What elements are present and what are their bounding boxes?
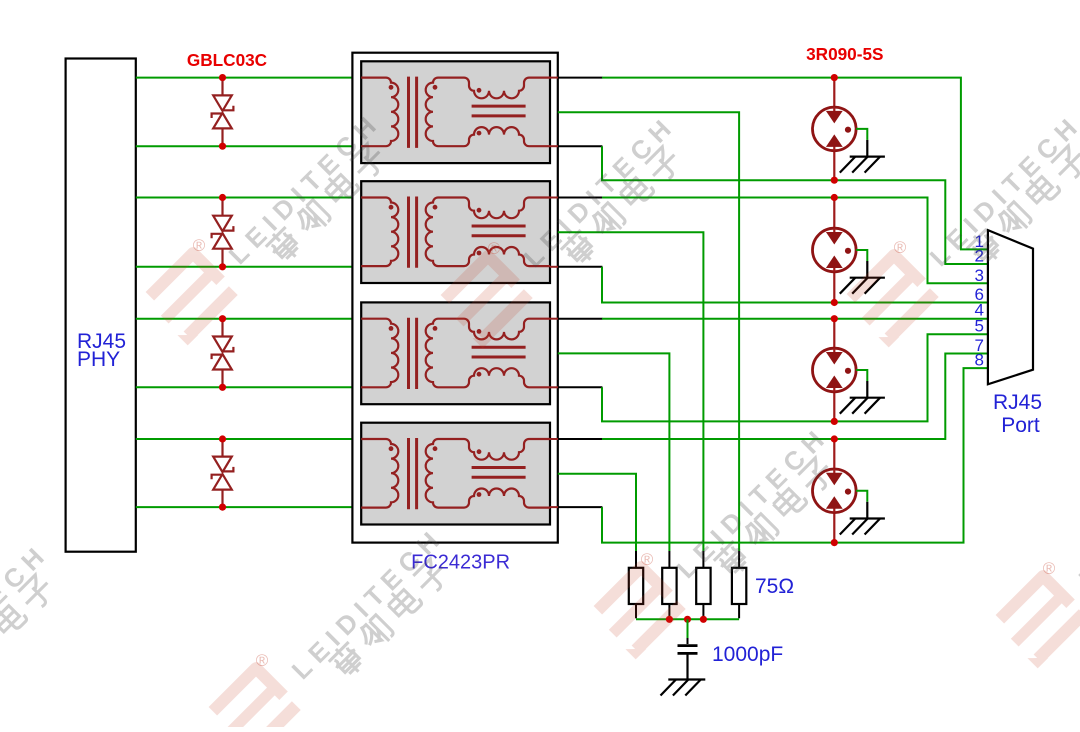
T1 polarity dots: [389, 85, 482, 136]
wire T1 centre tap to R4: [558, 112, 739, 551]
wire net pair2- to pin6: [602, 267, 988, 303]
T2 choke bottom winding path: [438, 247, 550, 266]
junction node U3 top: [831, 315, 838, 322]
junction node rail-R3: [700, 616, 707, 623]
surge protector U1 (3R090-5S): [813, 107, 857, 151]
wire U2 leads: [833, 198, 835, 303]
TVS diode D3 (GBLC03C): [212, 319, 234, 388]
TVS diode D1 (GBLC03C): [212, 78, 234, 147]
resistor R1 75R: [629, 568, 643, 604]
wire PHY pair 2-: [136, 266, 361, 268]
wire PHY pair 3+: [136, 318, 361, 320]
wire T4 centre tap to R1: [558, 474, 636, 551]
junction node D1 bottom: [219, 143, 226, 150]
junction node D4 bottom: [219, 504, 226, 511]
wire PHY pair 4-: [136, 506, 361, 508]
svg-text:®: ®: [256, 651, 269, 670]
wire PHY pair 1+: [136, 77, 361, 79]
wire U3 leads: [833, 319, 835, 422]
junction node D4 top: [219, 435, 226, 442]
junction node U4 top: [831, 435, 838, 442]
ground symbol G5 (capacitor): [661, 653, 706, 695]
wire net pair4+ to pin7: [602, 354, 988, 440]
T1 secondary winding: [426, 78, 438, 147]
capacitor C1 1000pF: [678, 638, 698, 653]
T3 secondary winding: [426, 319, 438, 388]
svg-text:®: ®: [894, 238, 907, 257]
wire PHY pair 1-: [136, 145, 361, 147]
wire U4 to ground: [856, 491, 867, 502]
svg-text:Port: Port: [1001, 414, 1040, 437]
junction node D2 bottom: [219, 263, 226, 270]
wire T2 centre tap to R3: [558, 232, 704, 551]
wire U1 to ground: [856, 129, 867, 140]
surge protector U2 (3R090-5S): [813, 228, 857, 272]
T1 choke top winding path: [438, 78, 550, 99]
watermarks (decorative): [144, 252, 238, 346]
wire U4 leads: [833, 439, 835, 543]
T1 primary winding: [361, 78, 398, 147]
wire PHY pair 2+: [136, 197, 361, 199]
wire net pair1- to pin2: [602, 146, 988, 264]
junction node U4 bottom: [831, 539, 838, 546]
ground symbol G2: [840, 261, 885, 294]
TVS diode D4 (GBLC03C): [212, 439, 234, 507]
T4 primary winding: [361, 439, 398, 508]
T4 secondary winding: [426, 439, 438, 508]
svg-text:RJ45: RJ45: [993, 391, 1042, 414]
wire T3 centre tap to R2: [558, 353, 670, 551]
wire PHY pair 3-: [136, 386, 361, 388]
RJ45 Port connector J1: [988, 230, 1033, 384]
svg-text:®: ®: [641, 550, 654, 569]
wire rail to C1: [687, 619, 689, 638]
T1 core bars: [409, 77, 526, 148]
svg-text:®: ®: [1043, 559, 1056, 578]
transformer module outer box: [352, 53, 557, 543]
wire U3 to ground: [856, 370, 867, 381]
ground symbol G3: [840, 381, 885, 414]
wire net pair2+ to pin3: [602, 198, 988, 284]
T3 primary winding: [361, 319, 398, 388]
svg-text:®: ®: [193, 236, 206, 255]
ground symbol G1: [840, 140, 885, 173]
svg-text:3R090-5S: 3R090-5S: [806, 44, 883, 64]
svg-text:1000pF: 1000pF: [712, 643, 783, 666]
junction node rail-R2: [666, 616, 673, 623]
wire net pair3+ to pin4: [602, 318, 988, 320]
junction node rail-cap: [684, 616, 691, 623]
svg-text:8: 8: [975, 351, 984, 370]
T3 core bars: [409, 318, 526, 389]
T1 choke bottom winding path: [438, 127, 550, 146]
svg-text:GBLC03C: GBLC03C: [187, 50, 267, 70]
junction node D3 bottom: [219, 384, 226, 391]
svg-text:75Ω: 75Ω: [755, 575, 794, 598]
resistor R4 75R: [732, 568, 746, 604]
T4 polarity dots: [389, 446, 482, 497]
svg-text:3: 3: [975, 266, 984, 285]
T2 core bars: [409, 197, 526, 268]
surge protector U4 (3R090-5S): [813, 469, 857, 513]
junction node U2 bottom: [831, 299, 838, 306]
T2 choke top winding path: [438, 198, 550, 219]
wire PHY pair 4+: [136, 438, 361, 440]
T4 core bars: [409, 438, 526, 509]
junction node D2 top: [219, 194, 226, 201]
junction node D3 top: [219, 315, 226, 322]
surge protector U3 (3R090-5S): [813, 348, 857, 392]
T2 polarity dots: [389, 205, 482, 256]
junction node U2 top: [831, 194, 838, 201]
junction node D1 top: [219, 74, 226, 81]
junction node U1 top: [831, 74, 838, 81]
svg-text:5: 5: [975, 317, 984, 336]
wire net pair1+ to pin1: [602, 78, 988, 250]
T3 choke top winding path: [438, 319, 550, 340]
T3 choke bottom winding path: [438, 368, 550, 387]
junction node U1 bottom: [831, 177, 838, 184]
T2 primary winding: [361, 198, 398, 267]
ground symbol G4: [840, 502, 885, 535]
TVS diode D2 (GBLC03C): [212, 198, 234, 267]
RJ45 PHY block: [66, 59, 136, 552]
T4 choke top winding path: [438, 439, 550, 460]
transformer output pin stubs: [550, 78, 558, 508]
wire resistor common rail: [636, 618, 739, 620]
wire U1 leads: [833, 78, 835, 181]
transformer T3 body box: [361, 302, 550, 404]
junction node U3 bottom: [831, 418, 838, 425]
svg-text:PHY: PHY: [77, 348, 120, 371]
resistor R2 75R: [662, 568, 676, 604]
T3 polarity dots: [389, 326, 482, 377]
wire net pair3- to pin5: [602, 334, 988, 421]
transformer T2 body box: [361, 181, 550, 283]
wire U2 to ground: [856, 250, 867, 261]
T4 choke bottom winding path: [438, 489, 550, 508]
transformer T4 body box: [361, 423, 550, 525]
wire net pair4- to pin8: [602, 368, 988, 542]
transformer T1 body box: [361, 61, 550, 163]
T2 secondary winding: [426, 198, 438, 267]
svg-text:®: ®: [488, 239, 501, 258]
resistor R3 75R: [696, 568, 710, 604]
